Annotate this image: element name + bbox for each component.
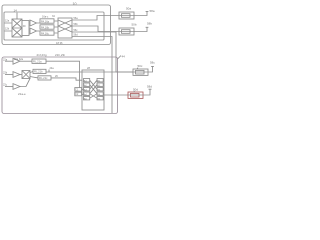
svg-text:21f,23g: 21f,23g	[37, 53, 47, 57]
svg-text:PA,16c: PA,16c	[41, 32, 50, 35]
svg-text:16a-c: 16a-c	[42, 15, 49, 18]
svg-text:21h,23i: 21h,23i	[55, 53, 65, 57]
svg-text:PA,16b: PA,16b	[41, 26, 50, 29]
svg-text:56a: 56a	[74, 17, 79, 20]
svg-text:56d: 56d	[74, 34, 79, 37]
svg-text:22a: 22a	[3, 58, 8, 61]
svg-text:22b: 22b	[3, 72, 8, 75]
svg-text:50b: 50b	[132, 23, 137, 27]
svg-text:PA,16a: PA,16a	[41, 20, 50, 23]
svg-text:50d: 50d	[133, 88, 138, 92]
svg-text:58a: 58a	[150, 9, 155, 13]
svg-text:44: 44	[122, 55, 126, 59]
svg-text:12b: 12b	[5, 28, 10, 31]
svg-text:14: 14	[14, 8, 18, 12]
svg-text:10: 10	[73, 2, 77, 6]
svg-text:50a: 50a	[126, 7, 131, 11]
svg-text:FIL,21b: FIL,21b	[34, 71, 43, 74]
svg-text:58b: 58b	[147, 22, 152, 26]
svg-text:12a: 12a	[5, 20, 10, 23]
svg-text:50c: 50c	[138, 64, 143, 68]
svg-text:21a-e: 21a-e	[18, 92, 26, 96]
svg-text:18 36: 18 36	[56, 41, 63, 45]
svg-text:58d: 58d	[147, 84, 152, 88]
svg-text:56b: 56b	[74, 23, 79, 26]
svg-text:FIL,21a: FIL,21a	[33, 61, 42, 64]
svg-text:58c: 58c	[150, 61, 155, 65]
svg-text:30a 32a: 30a 32a	[14, 58, 24, 61]
svg-text:24a: 24a	[50, 67, 55, 70]
svg-text:FIL,21c: FIL,21c	[39, 77, 48, 80]
